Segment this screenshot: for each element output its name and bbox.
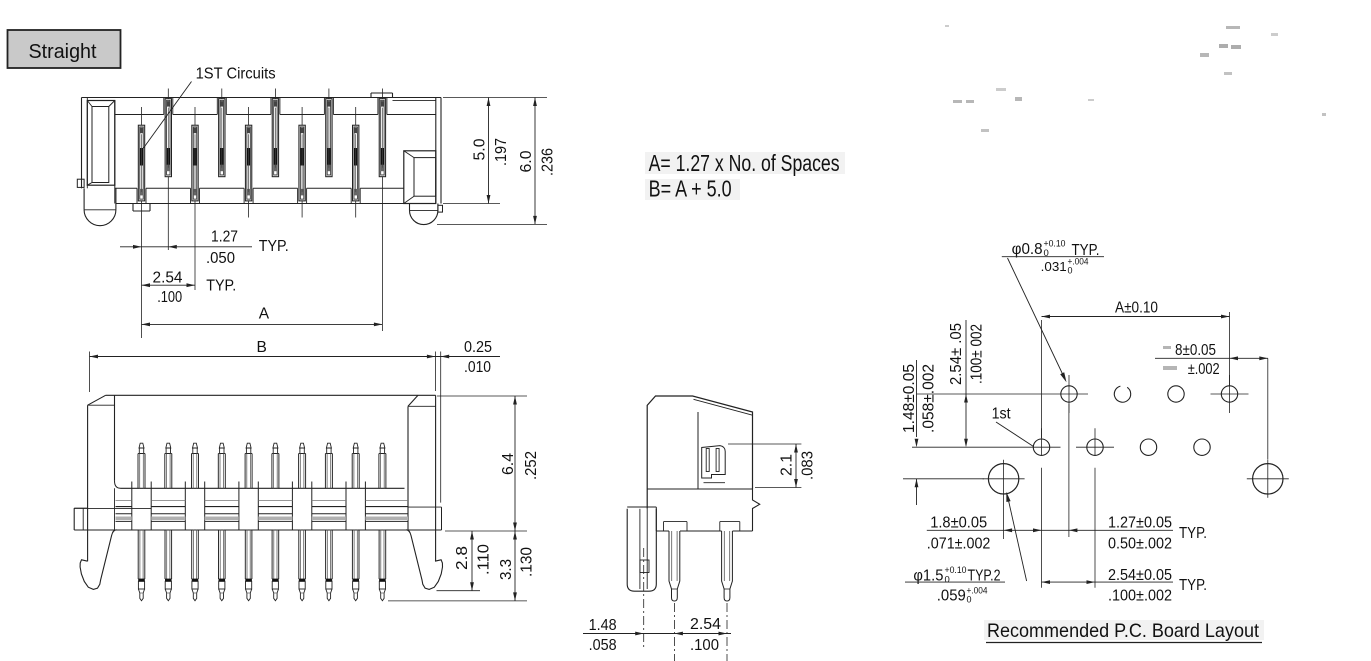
svg-text:8±0.05: 8±0.05: [1175, 342, 1216, 359]
dimension 2.54 TYP: [142, 269, 237, 306]
svg-text:.058: .058: [589, 637, 617, 654]
label dia 1.5 TYP.2: [905, 492, 1027, 605]
pin bosses: [664, 521, 688, 523]
svg-text:6.4: 6.4: [500, 453, 517, 475]
svg-text:2.54± .05: 2.54± .05: [948, 323, 965, 385]
svg-text:1ST Circuits: 1ST Circuits: [196, 66, 276, 83]
front view connector body: [74, 395, 442, 589]
svg-text:.100: .100: [157, 289, 182, 306]
svg-text:2.54: 2.54: [690, 616, 721, 633]
svg-text:.031: .031: [1041, 259, 1067, 274]
svg-text:.059: .059: [937, 588, 966, 605]
right end block: [408, 506, 442, 508]
left end block: [73, 508, 75, 530]
pcb layout holes: [983, 375, 1289, 498]
big hole left: [988, 464, 1018, 494]
dimension A pm 0.10: [1042, 300, 1230, 319]
svg-text:1st: 1st: [992, 406, 1012, 423]
hole row2 h3: [1140, 439, 1156, 455]
svg-text:TYP.: TYP.: [1179, 577, 1207, 594]
dimension 6.0 / .236: [437, 98, 557, 225]
hole row2 h2: [1087, 439, 1103, 455]
svg-text:.100±.002: .100±.002: [1108, 588, 1172, 605]
top tab: [370, 93, 372, 98]
svg-text:φ0.8: φ0.8: [1012, 241, 1043, 258]
label dia 0.8 TYP: [1002, 239, 1104, 383]
left hook foot: [80, 530, 116, 590]
front view upper pins: [138, 443, 386, 488]
svg-text:A= 1.27 x No. of Spaces: A= 1.27 x No. of Spaces: [649, 150, 840, 176]
dimension 2.8 / .110: [437, 531, 493, 591]
pin slots: [138, 125, 144, 201]
svg-text:3.3: 3.3: [498, 559, 515, 580]
dimension 2.1 / .083: [728, 444, 817, 488]
svg-text:0: 0: [967, 595, 972, 605]
right 3d block: [404, 151, 436, 204]
dimension 1.48 and 2.54 bottom: [583, 616, 731, 654]
svg-text:6.0: 6.0: [518, 150, 535, 172]
svg-text:1.48±0.05: 1.48±0.05: [901, 364, 918, 433]
svg-text:.252: .252: [523, 451, 540, 480]
centerlines: [643, 548, 645, 647]
svg-text:2.8: 2.8: [454, 546, 471, 570]
svg-text:Recommended P.C. Board Layout: Recommended P.C. Board Layout: [987, 620, 1260, 642]
svg-text:.050: .050: [206, 250, 235, 267]
svg-text:0: 0: [1044, 248, 1049, 259]
svg-text:5.0: 5.0: [472, 138, 489, 160]
svg-text:2.54: 2.54: [153, 269, 183, 286]
svg-text:A±0.10: A±0.10: [1115, 300, 1158, 317]
front view lower pins: [138, 530, 386, 601]
svg-text:1.8±0.05: 1.8±0.05: [930, 515, 987, 532]
svg-text:.100: .100: [690, 637, 719, 654]
svg-text:.071±.002: .071±.002: [927, 536, 991, 553]
center band: [121, 487, 405, 489]
dimension 1.48 vertical left: [901, 360, 984, 505]
left foot: [83, 188, 85, 210]
side right tab: [753, 489, 760, 531]
svg-text:.110: .110: [476, 544, 493, 575]
svg-text:B: B: [257, 339, 267, 356]
side latch: [627, 509, 656, 591]
left 3d block: [87, 101, 115, 186]
svg-text:±.002: ±.002: [1188, 361, 1220, 378]
svg-text:.100± 002: .100± 002: [969, 324, 986, 384]
svg-text:.130: .130: [519, 547, 536, 577]
dimension 1.8 (smudged) top right: [1155, 342, 1268, 378]
left latch: [88, 395, 106, 405]
hole row2 h1 (1st): [1033, 439, 1049, 455]
svg-text:2.1: 2.1: [779, 454, 796, 476]
dimension 6.4 / .252: [437, 396, 540, 531]
Straight label box: [8, 30, 121, 68]
svg-text:TYP.: TYP.: [1179, 525, 1207, 542]
hole row1 h1: [1061, 386, 1077, 402]
svg-text:1.27±0.05: 1.27±0.05: [1108, 515, 1172, 532]
hole row1 h3: [1168, 386, 1184, 402]
right hook foot: [406, 530, 442, 590]
side view connector body: [627, 396, 760, 661]
notch below pin1: [132, 204, 134, 212]
svg-text:0.25: 0.25: [464, 339, 492, 356]
svg-text:.197: .197: [493, 138, 510, 166]
top view connector body: [77, 89, 442, 339]
svg-text:0: 0: [1068, 266, 1073, 276]
hole row1 h2 (broken): [1114, 386, 1130, 402]
dimension 2.54 vertical left: [912, 320, 1050, 447]
right foot: [409, 204, 411, 211]
svg-text:TYP.: TYP.: [206, 278, 236, 295]
faint artifacts top right: [945, 25, 1326, 132]
bottom wall: [115, 187, 137, 189]
pin centerlines: [141, 107, 143, 125]
hole row2 h4: [1194, 439, 1210, 455]
svg-text:1.48: 1.48: [589, 617, 617, 634]
dimension B and 0.25: [90, 339, 501, 503]
title: [984, 620, 1264, 643]
label 1st: [992, 406, 1034, 447]
dimension 3.3 / .130: [388, 531, 536, 601]
svg-text:.083: .083: [800, 451, 817, 480]
svg-text:0.50±.002: 0.50±.002: [1108, 536, 1172, 553]
svg-text:0: 0: [945, 575, 950, 586]
dimension 5.0 / .197: [443, 98, 547, 204]
dimension 1.8 and 1.27 bottom: [927, 515, 1207, 553]
svg-text:2.54±0.05: 2.54±0.05: [1108, 567, 1172, 584]
formulas: [645, 150, 845, 202]
big hole right: [1253, 464, 1283, 494]
dimension 2.54 bottom: [1042, 567, 1208, 605]
svg-text:.010: .010: [464, 359, 491, 376]
svg-text:.236: .236: [540, 148, 557, 176]
top wall: [115, 114, 164, 116]
svg-text:1.27: 1.27: [211, 229, 238, 246]
svg-text:.058±.002: .058±.002: [921, 364, 938, 433]
side pins: [669, 531, 680, 601]
hole row1 h4: [1221, 386, 1237, 402]
svg-text:Straight: Straight: [29, 40, 97, 63]
dimension A: [142, 306, 383, 327]
label 1ST Circuits: [144, 66, 276, 149]
dimension 1.27 TYP: [120, 229, 289, 268]
pcb vertical extension lines: [1004, 312, 1268, 588]
pocket detail: [702, 446, 726, 478]
right latch: [408, 395, 418, 406]
svg-text:A: A: [259, 306, 270, 323]
svg-text:B= A + 5.0: B= A + 5.0: [649, 175, 732, 201]
svg-text:TYP.: TYP.: [259, 238, 289, 255]
